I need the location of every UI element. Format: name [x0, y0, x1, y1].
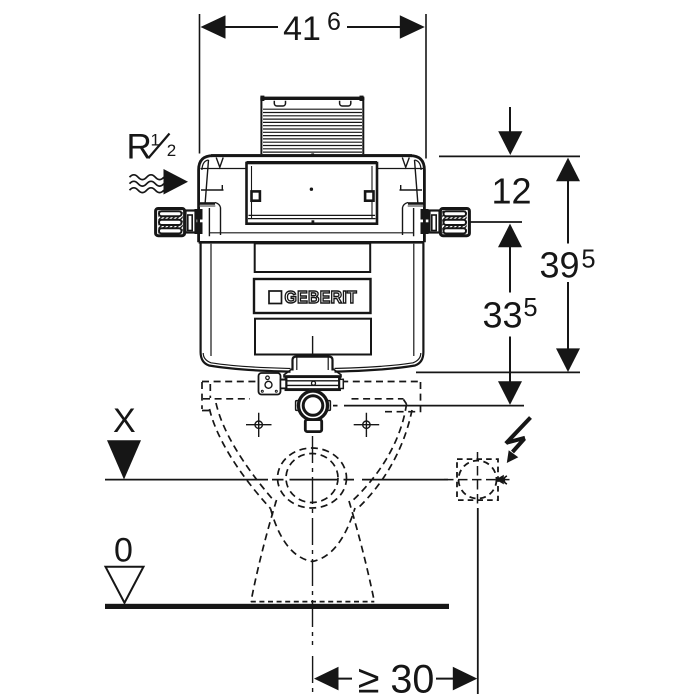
- dimension 33.5: [482, 224, 537, 405]
- pan left step line: [203, 398, 250, 400]
- pan top edge: [202, 381, 420, 383]
- outlet flares: [284, 369, 341, 378]
- pedestal bottom dashes: [251, 601, 374, 603]
- bowl rim right inner: [357, 410, 413, 510]
- panel square clip left: [252, 191, 260, 200]
- extension line right: [425, 14, 427, 159]
- svg-text:5: 5: [581, 246, 595, 274]
- panel inner side lines: [252, 166, 373, 219]
- bowl rim left inner: [210, 409, 271, 509]
- box sides: [261, 98, 363, 155]
- pan left inner vertical: [209, 384, 211, 398]
- fixing crosshair right: [354, 413, 380, 437]
- panel square clip right: [365, 191, 373, 200]
- flush pipe clamp block: [282, 377, 343, 390]
- hatch lines: [263, 109, 362, 152]
- left tower seam: [205, 160, 208, 203]
- bowl vertical centerline: [312, 436, 314, 695]
- svg-text:39: 39: [539, 244, 579, 285]
- housing bottom line: [199, 241, 425, 244]
- svg-text:33: 33: [482, 294, 522, 335]
- pedestal left edge: [251, 500, 277, 602]
- pan left edge: [202, 382, 213, 411]
- dimension >=30 bottom: [314, 658, 477, 700]
- svg-text:R: R: [127, 127, 152, 166]
- dimension 39.5: [539, 158, 595, 372]
- pan right small step: [385, 400, 417, 412]
- dimension line 41.6: [225, 26, 400, 28]
- flush bend: [296, 390, 331, 432]
- svg-text:6: 6: [327, 8, 341, 36]
- reference line cistern bottom: [416, 371, 580, 373]
- protection box (hatched) on cistern top: [260, 96, 364, 154]
- svg-text:5: 5: [523, 294, 537, 322]
- box top edge thick: [260, 97, 364, 100]
- wavy flow arrow: [130, 169, 189, 195]
- connection point mark: [496, 475, 508, 485]
- svg-text:12: 12: [491, 170, 531, 211]
- right fixing bracket: [421, 209, 470, 236]
- reference line bracket axis: [468, 221, 522, 223]
- zero level marker: [106, 531, 144, 603]
- access panel: [247, 163, 378, 224]
- reference line top of cistern: [439, 155, 580, 157]
- extension line left: [199, 14, 201, 154]
- X level line: [105, 479, 448, 481]
- plate connector: [281, 380, 287, 388]
- svg-text:GEBERIT: GEBERIT: [285, 287, 358, 307]
- lightning bolt: [506, 418, 531, 464]
- water supply dashed circle: [459, 461, 497, 499]
- X level marker: [105, 402, 448, 480]
- fixing crosshair left: [246, 413, 272, 437]
- water supply dashed square: [457, 459, 498, 500]
- right ledge dark: [408, 202, 423, 205]
- pedestal right edge: [349, 501, 374, 602]
- supply crosshair vertical: [477, 452, 479, 506]
- inner rect R1: [255, 243, 371, 272]
- label R 1/2 water connection: [127, 127, 177, 166]
- water ellipse outer: [278, 448, 347, 508]
- inner rect R3: [255, 319, 371, 355]
- svg-text:≥ 30: ≥ 30: [358, 658, 435, 700]
- tab left: [274, 101, 285, 106]
- tab right: [340, 101, 351, 106]
- lower tank: [201, 243, 424, 372]
- arrowhead right: [400, 15, 425, 39]
- right corner inner contour: [415, 160, 422, 170]
- right tower seam: [415, 160, 418, 203]
- V notch left: [216, 158, 223, 168]
- left tower tick: [201, 185, 224, 190]
- svg-text:X: X: [113, 402, 136, 440]
- tank inner wall lines: [203, 244, 421, 369]
- reference line flush bend axis: [333, 405, 524, 407]
- dimension 41.6 top width: [200, 8, 427, 159]
- trapway U: [271, 508, 356, 562]
- svg-text:0: 0: [114, 531, 133, 569]
- GEBERIT panel R2: [254, 279, 371, 313]
- lid inner line over panel: [247, 161, 378, 163]
- top center tick: [311, 153, 314, 156]
- bend bottom stub: [305, 420, 321, 432]
- V notch right: [402, 158, 409, 168]
- outlet fixing plate: [259, 373, 287, 395]
- arrowhead left: [201, 15, 226, 39]
- left ledge dark: [200, 202, 215, 205]
- pan right edge: [420, 382, 422, 414]
- pan right step line: [352, 398, 404, 400]
- supply crosshair horizontal: [444, 479, 512, 481]
- panel bottom center tick: [312, 220, 315, 223]
- floor line: [105, 604, 449, 609]
- panel center dot: [310, 188, 313, 191]
- bowl rim left outer: [216, 403, 275, 502]
- svg-text:2: 2: [167, 141, 176, 160]
- dashed WC pan outline: [202, 382, 421, 602]
- left corner inner contour: [202, 160, 209, 170]
- lid seam lines: [201, 168, 424, 170]
- cistern upper housing outline: [199, 153, 425, 242]
- dimension 12: [491, 107, 531, 211]
- cistern top edge thick: [211, 154, 412, 157]
- water ellipse inner: [286, 454, 338, 503]
- supply drop line: [477, 508, 479, 694]
- outlet stub on tank bottom: [284, 357, 341, 378]
- right tower tick: [400, 185, 423, 190]
- panel bottom band lines: [248, 215, 376, 218]
- geberit logo square: [269, 291, 282, 304]
- flush pipe center line: [312, 336, 314, 356]
- svg-text:41: 41: [283, 10, 321, 48]
- bowl rim right outer: [350, 404, 407, 503]
- left fixing bracket: [156, 209, 203, 236]
